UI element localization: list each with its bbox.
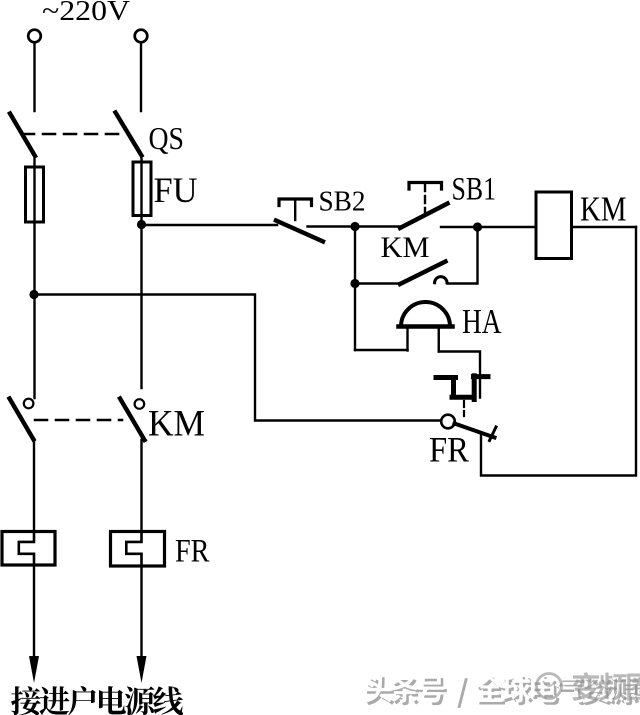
wire node to bell <box>354 227 356 350</box>
wire to SB2 <box>142 224 278 226</box>
node SB1/coil <box>473 222 482 231</box>
contactor KM main contact 1 circle <box>24 399 34 409</box>
pushbutton SB1 actuator <box>409 183 442 190</box>
svg-text:SB1: SB1 <box>452 172 497 208</box>
bell HA stem right <box>438 326 440 352</box>
svg-text:QS: QS <box>149 120 185 156</box>
svg-text:FR: FR <box>429 430 469 470</box>
terminal N <box>135 30 148 43</box>
QS linkage dashed <box>22 133 124 136</box>
fuse FU pole 2 <box>133 162 151 216</box>
wire coil to right rail <box>572 226 637 228</box>
wire <box>33 43 35 111</box>
contact KM self-hold blade <box>400 262 446 285</box>
switch QS pole 2 <box>116 113 142 156</box>
svg-text:FU: FU <box>154 170 198 210</box>
wire to KM aux <box>355 282 400 284</box>
wire to bell <box>355 349 408 351</box>
wire SB1 to coil <box>441 226 536 228</box>
contact FR blade <box>455 424 495 438</box>
svg-text:~220V: ~220V <box>42 0 130 27</box>
svg-text:SB2: SB2 <box>319 187 366 218</box>
thermal relay FR element 2 <box>111 532 165 567</box>
node KM aux <box>350 279 359 288</box>
fuse FU pole 1 <box>26 167 44 222</box>
wire KM aux to node <box>448 227 478 284</box>
contact KM hook <box>435 277 447 283</box>
pushbutton SB2 blade <box>276 221 323 242</box>
svg-text:HA: HA <box>462 302 502 341</box>
FR linkage dashed <box>463 401 465 416</box>
switch QS pole 1 <box>10 114 35 157</box>
thermal relay FR element 1 <box>2 532 55 566</box>
svg-text:KM: KM <box>148 404 205 445</box>
KM linkage dashed <box>35 419 122 422</box>
thermal element FR heater <box>436 376 488 400</box>
label 接进户电源线 <box>11 686 183 715</box>
node on left line <box>29 290 38 299</box>
contactor KM main contact 1 blade <box>10 399 34 440</box>
arrow to supply line 2 <box>140 566 142 660</box>
wire <box>140 43 142 111</box>
bell HA base <box>399 324 453 329</box>
node SB2/SB1 <box>350 222 359 231</box>
pushbutton SB1 blade <box>400 204 448 229</box>
arrow to supply line 1 <box>33 565 35 660</box>
coil KM <box>536 192 572 259</box>
wire SB2 to SB1 <box>308 225 401 227</box>
contact FR anvil <box>490 427 497 441</box>
wire FR to right rail <box>481 227 636 476</box>
wire <box>33 156 35 398</box>
svg-text:KM: KM <box>580 190 627 229</box>
pushbutton SB2 actuator <box>279 199 312 206</box>
contactor KM main contact 2 blade <box>120 399 145 441</box>
watermark 头条号/全球电气资源 <box>364 674 639 708</box>
contact FR pivot <box>441 415 455 429</box>
svg-text:KM: KM <box>381 231 430 264</box>
wire bell to FR heater <box>439 352 480 398</box>
wire <box>33 440 35 533</box>
node below FU pole 2 <box>137 220 146 229</box>
svg-text:FR: FR <box>175 534 210 570</box>
bell HA stem left <box>406 326 408 351</box>
watermark 变频圈 gray <box>537 672 640 701</box>
contactor KM main contact 2 circle <box>135 399 145 409</box>
wire left node to FR contact <box>34 295 441 421</box>
wire <box>140 440 142 532</box>
bell HA dome <box>401 302 450 327</box>
wire <box>140 156 142 389</box>
terminal L <box>28 30 41 43</box>
